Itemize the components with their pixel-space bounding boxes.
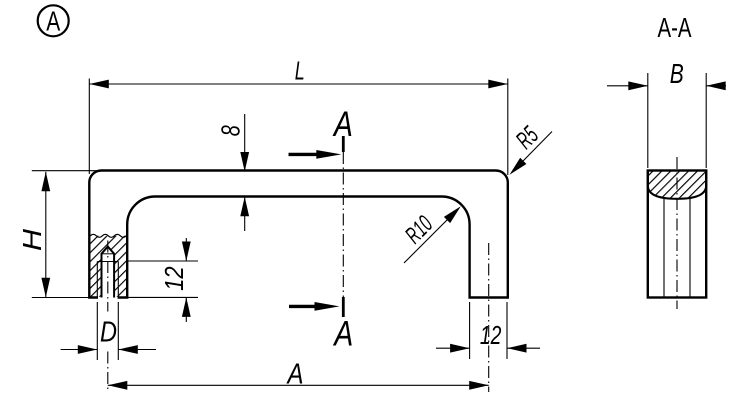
svg-text:R10: R10 — [400, 211, 438, 249]
svg-text:A: A — [286, 358, 304, 390]
svg-text:A: A — [332, 105, 353, 144]
svg-text:L: L — [295, 55, 305, 85]
svg-text:B: B — [670, 58, 684, 89]
svg-text:A: A — [333, 315, 354, 354]
svg-text:12: 12 — [159, 266, 189, 291]
svg-text:R5: R5 — [511, 121, 544, 154]
svg-text:A: A — [46, 5, 60, 36]
svg-text:A-A: A-A — [658, 12, 692, 43]
svg-text:H: H — [17, 229, 47, 251]
svg-text:8: 8 — [216, 125, 246, 136]
svg-text:12: 12 — [480, 320, 502, 350]
svg-text:D: D — [100, 317, 117, 349]
